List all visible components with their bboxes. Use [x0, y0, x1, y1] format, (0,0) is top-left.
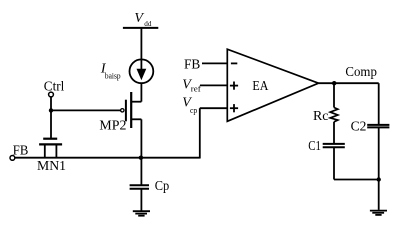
svg-text:MP2: MP2	[99, 118, 126, 133]
svg-text:baisp: baisp	[105, 72, 121, 81]
svg-text:MN1: MN1	[37, 159, 66, 174]
svg-text:Cp: Cp	[155, 179, 170, 194]
svg-text:dd: dd	[144, 19, 151, 28]
svg-text:FB: FB	[13, 143, 28, 158]
svg-text:Comp: Comp	[345, 65, 377, 80]
svg-text:ref: ref	[191, 84, 201, 94]
svg-text:C1: C1	[308, 139, 321, 154]
svg-text:FB: FB	[184, 58, 200, 73]
svg-text:Ctrl: Ctrl	[44, 80, 65, 95]
svg-text:cp: cp	[190, 105, 197, 115]
svg-text:Rc: Rc	[313, 109, 329, 124]
svg-text:C2: C2	[351, 119, 367, 134]
svg-text:EA: EA	[252, 79, 269, 94]
svg-text:V: V	[134, 11, 144, 26]
